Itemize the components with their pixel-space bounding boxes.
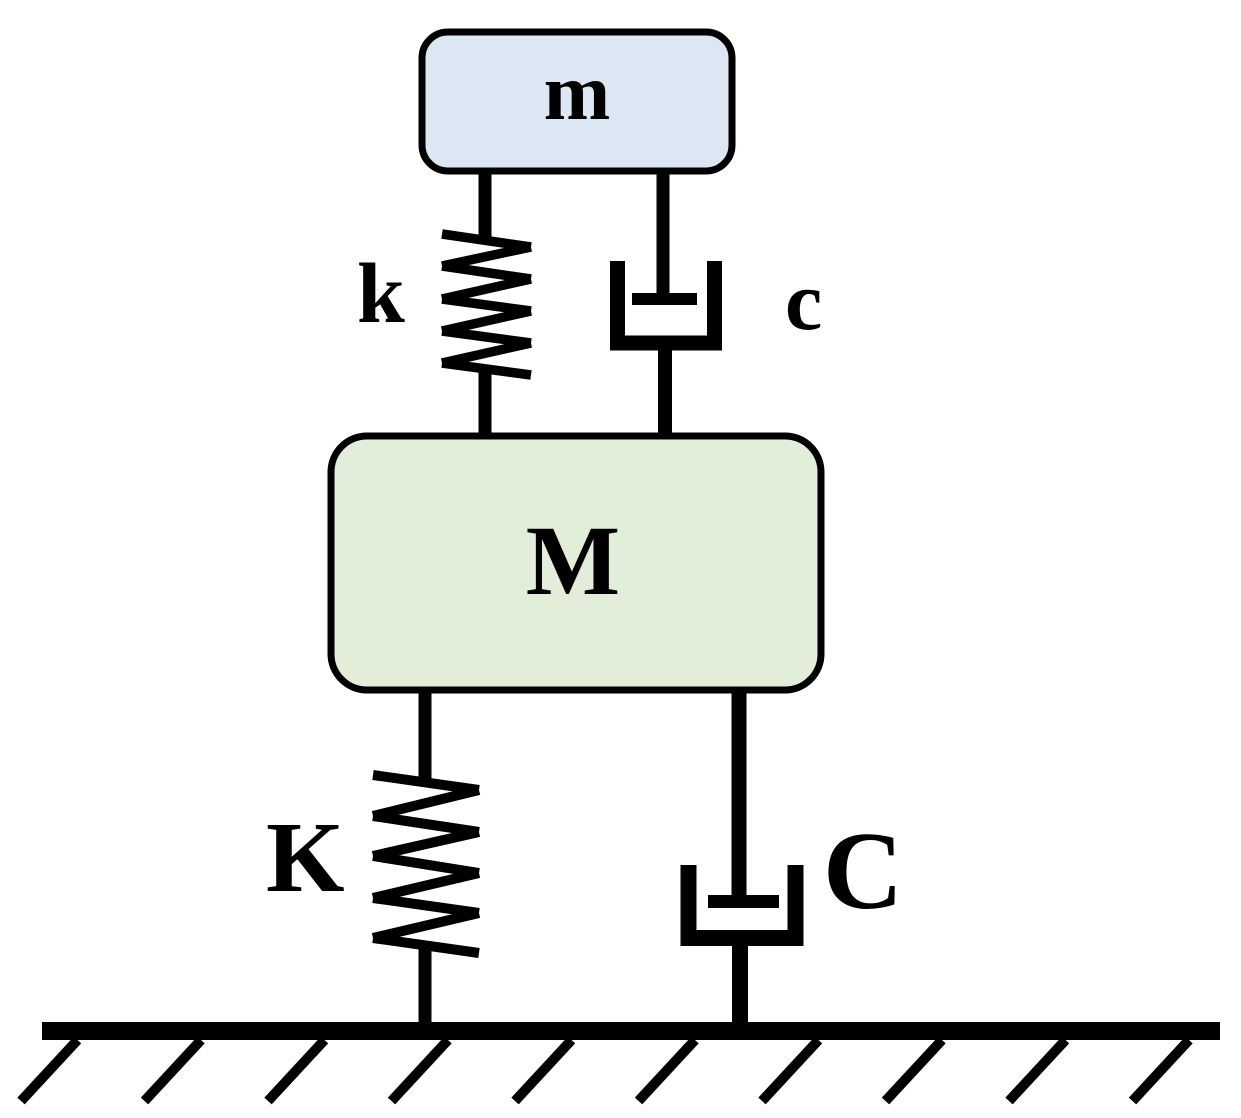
ground line: [42, 1022, 1220, 1040]
svg-text:M: M: [526, 505, 620, 616]
mass M: [331, 436, 821, 690]
svg-text:c: c: [785, 255, 822, 348]
ground hatch 10: [1133, 1040, 1190, 1101]
damper C piston plate: [708, 895, 779, 908]
damper c piston plate: [632, 293, 697, 305]
ground hatch 9: [1009, 1040, 1066, 1101]
ground hatch 2: [145, 1040, 202, 1101]
ground hatch 5: [515, 1040, 572, 1101]
damper C cylinder: [689, 865, 796, 938]
spring k: [442, 234, 531, 375]
damper c cylinder: [618, 261, 715, 343]
wire spring K to ground: [419, 944, 432, 1026]
wire m to damper c: [657, 171, 670, 295]
wire M to damper C: [732, 687, 747, 896]
svg-text:C: C: [823, 810, 903, 933]
spring K: [373, 775, 479, 953]
wire m to spring k: [479, 171, 492, 242]
wire damper C to ground: [732, 944, 748, 1026]
mass m: [422, 32, 732, 171]
ground hatch 8: [886, 1040, 943, 1101]
wire spring k to mass M: [479, 368, 492, 440]
ground hatch 4: [392, 1040, 449, 1101]
wire damper c to mass M: [658, 348, 672, 440]
ground hatch 6: [639, 1040, 696, 1101]
svg-text:k: k: [357, 245, 405, 341]
svg-text:m: m: [544, 49, 611, 137]
ground hatch 1: [21, 1040, 78, 1101]
ground hatch 3: [268, 1040, 325, 1101]
wire M to spring K: [419, 687, 432, 780]
ground hatch 7: [762, 1040, 819, 1101]
svg-text:K: K: [266, 801, 345, 913]
